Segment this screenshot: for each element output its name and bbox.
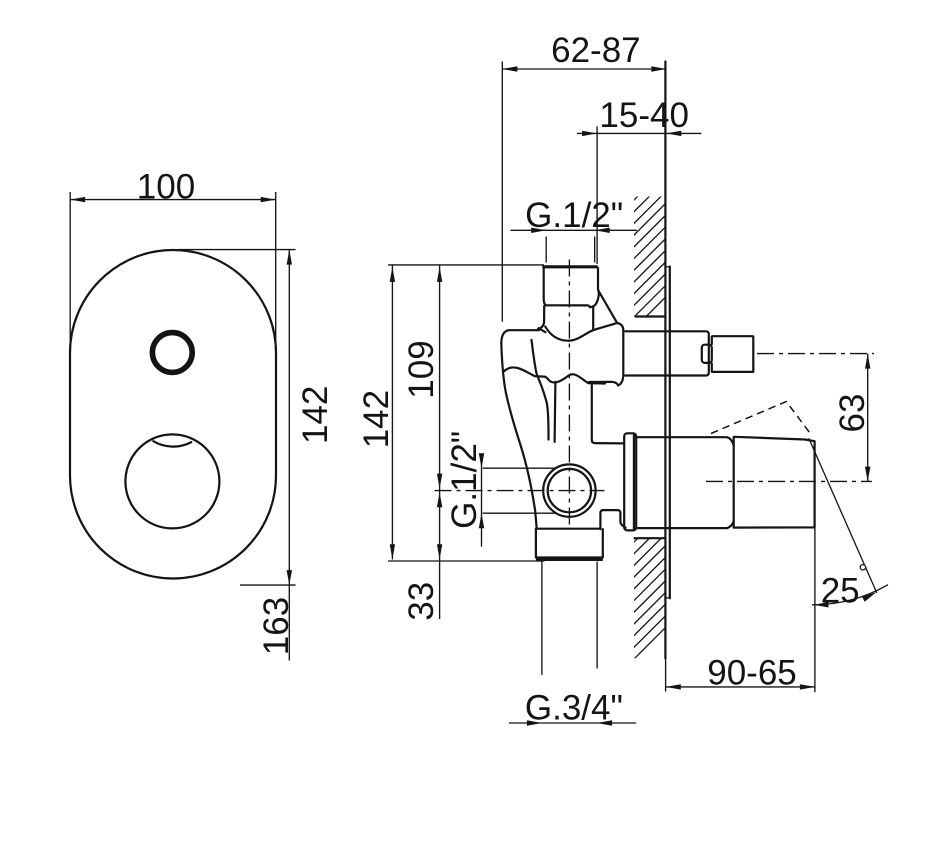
ext line right — [275, 192, 277, 354]
svg-text:90-65: 90-65 — [707, 653, 797, 692]
outlet stub G1/2 — [712, 336, 754, 372]
diverter button ring — [152, 333, 192, 373]
port right edge — [597, 268, 599, 289]
knob indicator crescent — [153, 441, 191, 446]
wall plate (stadium outline) — [70, 250, 276, 579]
dim G.1/2 side — [483, 467, 556, 469]
ext line left — [69, 192, 71, 354]
side port horizontal centerline — [435, 490, 605, 492]
port thread relief curve (right) — [590, 289, 599, 307]
svg-text:G.1/2": G.1/2" — [445, 431, 484, 529]
plate top tick — [666, 266, 671, 268]
rotated handle dashed top edge — [711, 402, 812, 436]
svg-text:25: 25 — [821, 571, 860, 610]
svg-text:G.1/2": G.1/2" — [525, 196, 623, 235]
arc arrow left — [813, 602, 828, 607]
escutcheon plate (side) — [669, 267, 671, 599]
dim 109 — [388, 264, 544, 266]
port foot vertical — [592, 307, 594, 330]
outlet thick thread face — [536, 558, 603, 561]
svg-text:109: 109 — [402, 340, 441, 398]
handle knob circle — [125, 434, 219, 528]
shoulder arc under hub to collar fillet — [545, 323, 617, 341]
svg-text:100: 100 — [137, 167, 195, 206]
ext line bottom — [240, 584, 296, 586]
dim 63 — [867, 354, 869, 482]
step above outlet — [600, 510, 625, 529]
arrow right — [261, 197, 276, 202]
leader end circle — [860, 565, 865, 570]
retaining clip — [702, 345, 712, 363]
handle centerline — [706, 480, 872, 482]
dim line 142 — [288, 250, 290, 585]
plate bottom tick — [666, 597, 671, 599]
wall line lower extension (90-65 ext) — [665, 658, 667, 691]
svg-text:142: 142 — [296, 386, 335, 444]
bottom outlet box — [536, 529, 603, 558]
hub left side — [538, 306, 545, 329]
svg-text:33: 33 — [402, 582, 441, 621]
dim 142 right — [391, 265, 393, 560]
body top edge (left) — [501, 330, 539, 343]
top inlet port G1/2: thick thread face — [542, 265, 598, 268]
handle sleeve cylinder bottom — [638, 521, 734, 528]
svg-text:142: 142 — [357, 390, 396, 448]
dim 62-87 — [501, 62, 503, 322]
port left edge — [544, 268, 546, 305]
svg-text:15-40: 15-40 — [599, 96, 689, 135]
handle knob — [734, 437, 815, 528]
25 deg arc — [812, 585, 888, 605]
side port vertical centerline — [568, 260, 570, 527]
hatch bottom top border — [635, 537, 666, 539]
upper collar flange (spool) — [617, 323, 623, 386]
dim 15-40 — [596, 126, 598, 264]
body right edge — [589, 382, 624, 444]
side port outer circle — [543, 464, 595, 516]
svg-text:62-87: 62-87 — [551, 31, 641, 70]
lower collar inner line — [633, 435, 635, 530]
arrow up — [287, 250, 292, 265]
wall hatch bottom section — [620, 496, 680, 673]
wall hatch top section — [620, 154, 680, 343]
mid body wavy rib — [504, 367, 605, 383]
inner cone line A — [532, 340, 549, 440]
svg-text:G.3/4": G.3/4" — [525, 689, 623, 728]
arrow down — [287, 570, 292, 585]
dim G.3/4 bottom — [541, 562, 543, 675]
body left profile — [501, 344, 536, 529]
lower collar — [624, 433, 636, 530]
upper centerline — [757, 353, 874, 355]
thread end line — [546, 305, 590, 307]
dim line 163 (extension below) — [288, 585, 290, 660]
ext line top — [178, 249, 296, 251]
inner cone line B — [553, 382, 556, 442]
dim 33 — [439, 490, 441, 619]
arrow left — [70, 197, 85, 202]
svg-text:163: 163 — [257, 597, 296, 655]
dim 90-65 — [666, 686, 815, 688]
hub fillet tick — [539, 328, 546, 332]
svg-text:63: 63 — [833, 394, 872, 433]
upper cylinder through wall — [625, 331, 709, 375]
hatch top bottom border — [636, 315, 666, 317]
side port inner circle — [548, 469, 591, 512]
arc arrow right — [862, 592, 876, 602]
cone diagonal to collar — [599, 292, 617, 323]
handle sleeve cylinder top — [637, 437, 734, 445]
25 deg leader line — [809, 438, 877, 593]
dim line 100 — [70, 199, 276, 201]
dim G.1/2 top — [545, 237, 547, 263]
wall face line — [664, 62, 666, 659]
vertical ref line below knob — [814, 528, 816, 693]
